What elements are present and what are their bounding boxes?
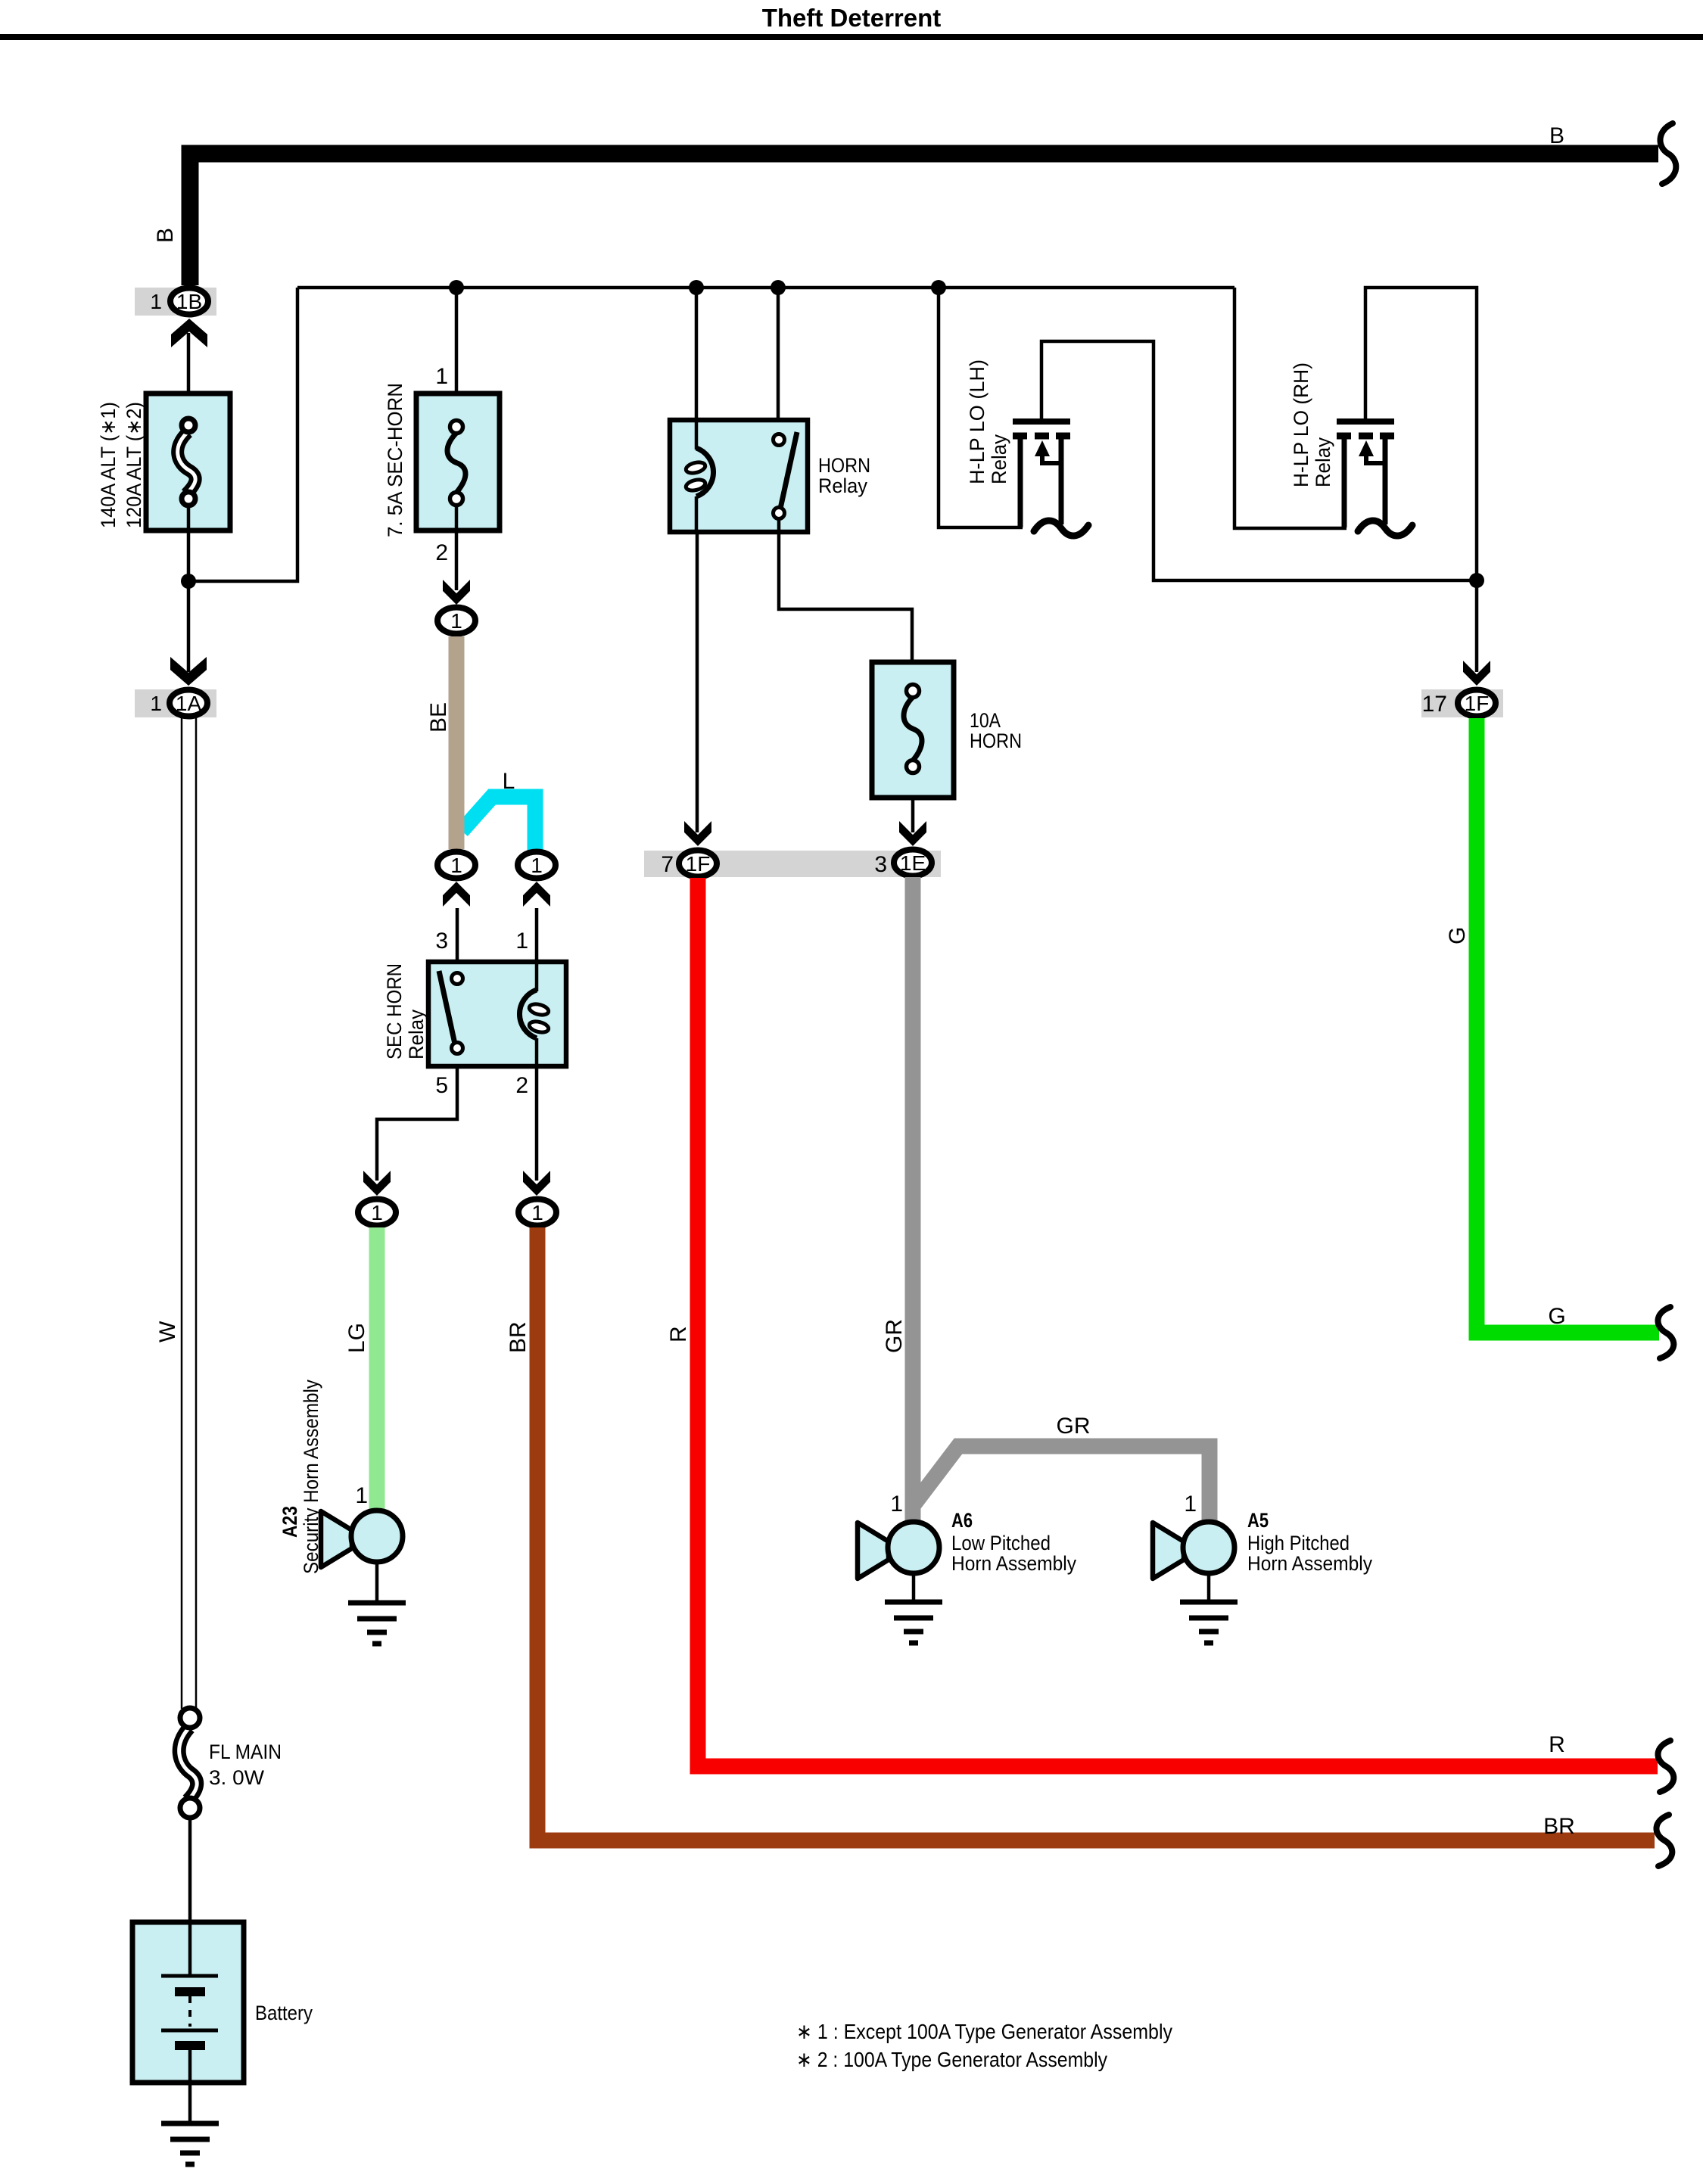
wire connector to SEC HORN relay pin 3 [456,908,459,963]
harness arrow (up) below BE connector [443,882,470,907]
svg-text:1E: 1E [900,851,926,875]
svg-text:R: R [666,1326,691,1342]
svg-text:GR: GR [1057,1414,1091,1439]
fusible link FL MAIN symbol [179,1708,200,1818]
harness arrow (down) above 1F [684,821,711,846]
relay SEC HORN box [428,962,566,1066]
svg-text:1: 1 [1184,1492,1197,1517]
harness arrow (down) above 1E [899,821,926,846]
svg-text:G: G [1445,927,1470,944]
svg-text:HORN: HORN [818,454,870,477]
wire LG (light green) [369,1227,385,1513]
connector band 1F (pin 17) [1421,689,1503,717]
svg-text:1: 1 [531,854,543,877]
node on bus at 7.5A SEC-HORN fuse [449,280,464,295]
ground (security horn) [348,1603,406,1644]
svg-text:1: 1 [435,364,448,389]
wire bus to HORN relay coil [695,288,699,422]
wire W (white) 1A to FL MAIN [182,718,196,1709]
wire bus to RH relay source [1234,288,1347,528]
fusible link symbol 140A/120A ALT [178,418,195,506]
svg-text:17: 17 [1422,692,1447,717]
svg-text:1: 1 [371,1201,383,1224]
svg-text:G: G [1548,1304,1565,1329]
wire 1B to 140A ALT fuse [187,333,191,422]
wire LH relay drain loop [1041,341,1477,580]
fuse symbol 10A HORN [904,685,922,773]
wire 7.5A fuse to connector [455,504,459,590]
svg-text:L: L [503,769,515,794]
low pitched horn assembly A6 symbol [858,1522,939,1579]
break symbol at G wire right end [1658,1307,1673,1358]
fusible link box 140A/120A ALT [146,394,230,530]
svg-text:1: 1 [890,1492,903,1517]
wire GR (gray) branch to high horn [913,1446,1210,1523]
node on bus at HORN relay switch [771,280,786,295]
harness arrow (down) above LG connector [363,1171,391,1196]
fuse box 10A HORN [872,662,954,798]
svg-text:LG: LG [344,1323,369,1353]
svg-text:R: R [1549,1732,1565,1757]
connector 1B oval [170,288,208,315]
ground (high pitched horn) [1180,1602,1238,1643]
connector oval 1 (BE wire bottom) [437,852,475,879]
svg-text:1: 1 [515,929,528,954]
connector oval 1 (L wire bottom) [518,852,556,879]
svg-text:Relay: Relay [1312,437,1334,487]
svg-text:1: 1 [150,692,162,715]
wire RH relay drain to node B [1365,288,1477,672]
svg-text:FL MAIN: FL MAIN [209,1741,282,1763]
svg-text:HORN: HORN [970,730,1022,752]
svg-text:3: 3 [435,929,448,954]
harness arrow (down) above BR connector [523,1171,550,1196]
connector band 1B [135,288,216,316]
svg-text:1F: 1F [686,852,711,876]
svg-text:140A ALT (∗1): 140A ALT (∗1) [97,402,120,528]
HORN relay coil [685,420,714,532]
svg-text:BE: BE [426,702,451,733]
svg-text:2: 2 [515,1073,528,1098]
SEC HORN relay coil [519,962,550,1066]
node A junction (ALT feed / bus riser) [181,574,196,589]
svg-text:A6: A6 [951,1509,973,1532]
svg-text:Theft Deterrent: Theft Deterrent [762,4,942,32]
wire bus to 7.5A SEC-HORN fuse [455,288,459,422]
wire low horn to ground [912,1573,916,1602]
svg-text:High Pitched: High Pitched [1247,1532,1350,1554]
bus wire (ALT riser to LH relay area) [297,286,1234,290]
wire SEC HORN relay pin 5 to connector [377,1066,457,1181]
wire BR (brown) run [537,1227,1655,1840]
break squiggle under RH relay [1358,521,1412,536]
connector 1A oval [170,690,207,717]
harness arrow (down) above 17-1F [1463,661,1490,686]
svg-text:BR: BR [506,1321,531,1353]
node B junction (relay drains) [1469,573,1484,588]
svg-text:1: 1 [450,854,462,877]
connector oval 1 (BR wire top) [518,1199,556,1226]
relay HORN box [670,420,808,532]
svg-text:A5: A5 [1247,1509,1269,1532]
harness arrow (down) above BE connector [443,580,470,605]
break symbol at BR wire right end [1656,1815,1672,1866]
wire connector to SEC HORN relay pin 1 [535,908,539,963]
transistor of H-LP LO (LH) relay [1013,422,1070,527]
svg-text:Relay: Relay [988,434,1010,484]
break squiggle under LH relay [1034,521,1088,536]
fuse box 7.5A SEC-HORN [416,394,500,530]
wire FL MAIN to battery [188,1818,192,1922]
wire high horn to ground [1207,1573,1211,1602]
svg-text:1B: 1B [176,290,202,313]
battery [132,1922,244,2123]
ground (low pitched horn) [885,1602,942,1643]
svg-text:∗ 2 : 100A Type Generator Asse: ∗ 2 : 100A Type Generator Assembly [796,2048,1107,2071]
harness arrow into 1B (up) [171,319,207,347]
HORN relay switch [774,432,798,519]
svg-text:7: 7 [661,852,674,877]
connector 1E oval [894,850,932,876]
svg-text:BR: BR [1543,1814,1575,1839]
wire node A to bus riser [188,288,297,581]
svg-text:B: B [153,228,178,243]
connector 1F oval (pin 17) [1458,690,1496,717]
wire bus to HORN relay switch [777,288,780,422]
svg-text:Relay: Relay [405,1010,428,1059]
svg-text:3: 3 [874,852,887,877]
svg-text:GR: GR [882,1319,907,1353]
svg-text:1F: 1F [1465,692,1490,715]
ground (battery) [161,2123,219,2164]
wire 140A ALT to node A and connector 1A [187,504,191,672]
svg-text:H-LP LO (RH): H-LP LO (RH) [1290,362,1312,487]
wire G (green) run [1477,718,1659,1333]
connector band 1A [135,689,216,717]
svg-text:A23: A23 [279,1506,301,1538]
svg-text:5: 5 [435,1073,448,1098]
SEC HORN relay switch [439,971,463,1054]
svg-text:1: 1 [450,609,462,633]
harness arrow (up) below L connector [523,882,550,907]
svg-text:120A ALT (∗2): 120A ALT (∗2) [123,402,145,528]
wire bus node to LH relay source [939,288,1023,527]
wire L (cyan) branch [462,797,535,851]
title rule [0,34,1703,40]
wire B thick battery feed (top) [190,154,1658,285]
transistor of H-LP LO (RH) relay [1337,422,1394,527]
svg-text:Battery: Battery [255,2002,313,2024]
node on bus at HORN relay coil [689,280,704,295]
wire horn to ground [375,1562,379,1603]
svg-text:7. 5A SEC-HORN: 7. 5A SEC-HORN [384,383,406,537]
svg-text:1: 1 [355,1483,368,1508]
svg-text:1: 1 [531,1201,543,1224]
break symbol at B wire right end [1660,123,1676,184]
svg-text:10A: 10A [970,709,1001,732]
connector band 1F/1E [644,851,941,877]
svg-text:Relay: Relay [818,474,867,497]
svg-text:2: 2 [435,540,448,565]
svg-text:3. 0W: 3. 0W [209,1766,265,1789]
node on bus at H-LP LO (LH) relay [931,280,946,295]
connector 1F oval [679,851,717,877]
wire HORN relay coil to connector 1F [696,532,699,832]
svg-text:1: 1 [150,290,162,313]
security horn assembly A23 symbol [321,1510,403,1567]
svg-text:W: W [155,1321,180,1342]
svg-text:SEC HORN: SEC HORN [383,963,406,1059]
wire SEC HORN relay pin 2 to connector [535,1066,539,1181]
high pitched horn assembly A5 symbol [1153,1522,1234,1579]
svg-text:Horn Assembly: Horn Assembly [1247,1552,1372,1575]
wire 10A HORN fuse to connector 1E [911,798,915,832]
wire BE (beige) [449,636,465,849]
svg-text:Security Horn Assembly: Security Horn Assembly [300,1380,322,1574]
wire GR (gray) to low horn [905,877,921,1523]
harness arrow into 1A (down) [170,657,207,686]
svg-text:Low Pitched: Low Pitched [951,1532,1051,1554]
wire HORN relay switch to 10A HORN fuse [779,518,912,664]
svg-text:B: B [1549,123,1564,148]
connector oval 1 (BE wire top) [437,608,475,634]
svg-text:1A: 1A [176,692,202,715]
wire R (red) run [698,878,1658,1766]
break symbol at R wire right end [1658,1741,1673,1792]
svg-text:Horn Assembly: Horn Assembly [951,1552,1076,1575]
svg-text:H-LP LO (LH): H-LP LO (LH) [966,359,988,484]
svg-text:∗ 1 : Except 100A Type Generat: ∗ 1 : Except 100A Type Generator Assembl… [796,2020,1172,2043]
fuse symbol 7.5A SEC-HORN [447,421,465,506]
connector oval 1 (LG wire top) [358,1199,396,1226]
